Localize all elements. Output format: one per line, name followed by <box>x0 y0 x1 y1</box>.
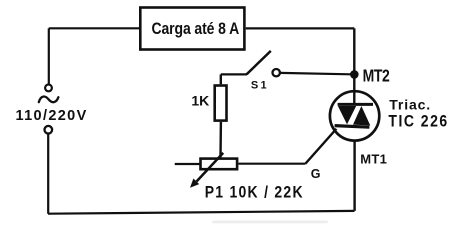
switch S1 lever <box>247 51 271 74</box>
svg-text:Triac.: Triac. <box>389 97 431 113</box>
AC source terminal circle bottom <box>45 126 53 134</box>
node MT2 junction dot <box>350 70 359 79</box>
wire pot right to gate <box>238 163 305 165</box>
svg-text:TIC 226: TIC 226 <box>388 113 448 131</box>
svg-text:110/220V: 110/220V <box>16 108 88 124</box>
wire right vertical lower (MT1 lead) <box>353 141 355 211</box>
wire resistor top stub <box>220 74 222 84</box>
resistor R 1K body <box>215 86 227 121</box>
wire resistor to potentiometer <box>219 122 222 157</box>
AC source sine tilde <box>39 97 59 103</box>
wire MT2 vertical <box>353 28 355 104</box>
faint scan smudge <box>212 221 328 224</box>
svg-text:Carga até 8 A: Carga até 8 A <box>152 20 240 38</box>
wire gate diagonal <box>305 129 336 164</box>
wire bottom rail <box>48 211 355 214</box>
svg-text:MT2: MT2 <box>363 67 390 86</box>
triac bottom bar <box>335 126 370 128</box>
triac U1 body circle <box>330 91 379 140</box>
wire pot left stub <box>175 163 200 165</box>
triac top bar <box>338 103 373 106</box>
load box (Carga ate 8A) <box>140 8 244 50</box>
svg-text:S1: S1 <box>251 80 269 92</box>
svg-text:MT1: MT1 <box>360 151 387 166</box>
wire top-left horizontal <box>49 27 139 29</box>
wire switch to MT2 node <box>280 73 350 74</box>
triac right triangle <box>353 106 370 126</box>
switch S1 contact circle <box>273 69 280 76</box>
svg-text:1K: 1K <box>191 93 209 109</box>
wire left vertical lower <box>47 134 49 214</box>
potentiometer arrowhead <box>190 179 199 188</box>
AC source terminal circle top <box>45 85 52 92</box>
potentiometer wiper arrow shaft <box>197 153 224 182</box>
svg-text:P1 10K / 22K: P1 10K / 22K <box>205 183 304 201</box>
wire left vertical upper <box>48 28 50 84</box>
potentiometer P1 body <box>201 159 238 170</box>
wire switch left horizontal <box>221 73 247 75</box>
wire top-right horizontal <box>246 27 355 29</box>
svg-text:G: G <box>311 167 321 181</box>
triac left triangle <box>338 106 356 124</box>
